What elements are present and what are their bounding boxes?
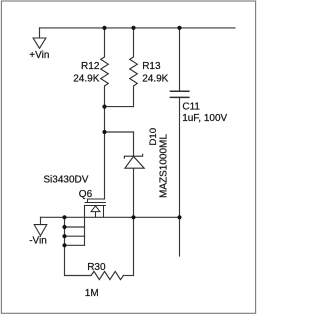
- node rail-C11: [177, 26, 181, 30]
- wire +Vin stub: [39, 28, 41, 38]
- wire C11 top lead: [179, 28, 181, 91]
- channel bar: [85, 202, 106, 204]
- svg-text:1M: 1M: [85, 288, 99, 299]
- wire R30 left lead: [65, 275, 92, 277]
- wire D10 top link: [105, 131, 134, 133]
- node R12-R13 junction: [102, 105, 106, 109]
- svg-text:R30: R30: [87, 262, 106, 273]
- svg-text:1uF, 100V: 1uF, 100V: [182, 113, 227, 124]
- wire Q6 gate vertical: [84, 206, 86, 246]
- resistor R12: [101, 57, 109, 86]
- wire Q6 pin rung 2: [65, 235, 85, 237]
- body arrow: [91, 206, 100, 212]
- resistor R30: [91, 271, 124, 279]
- body arrow stem: [95, 212, 97, 218]
- gate bar: [85, 205, 106, 207]
- node rail-R13: [131, 26, 135, 30]
- wire R30 right link: [124, 275, 134, 277]
- terminal +Vin: [33, 38, 46, 48]
- wire R13 top lead: [133, 28, 135, 57]
- wire D10 cathode lead: [133, 132, 135, 156]
- wire R13 bottom lead: [133, 86, 135, 107]
- wire R12 top lead: [104, 28, 106, 57]
- source stub: [103, 206, 105, 218]
- wire R12 bottom lead / Q6 drain line: [104, 86, 106, 199]
- node -Vin rail source pins: [62, 215, 66, 219]
- node rail-R12: [102, 26, 106, 30]
- wire R13 to R12 link: [105, 106, 134, 108]
- wire source pins left vertical: [64, 217, 66, 275]
- node pin rung 2: [62, 234, 66, 238]
- drain jog: [88, 199, 105, 203]
- svg-text:Q6: Q6: [79, 189, 93, 200]
- node -Vin rail C11: [177, 215, 181, 219]
- svg-text:Si3430DV: Si3430DV: [43, 174, 88, 185]
- wire Q6 pin rung 1: [65, 226, 85, 228]
- wire top +Vin rail: [40, 27, 236, 29]
- svg-text:24.9K: 24.9K: [142, 73, 168, 84]
- diode D10 (zener): [124, 154, 144, 168]
- node R12-D10 junction: [102, 130, 106, 134]
- resistor R13: [130, 57, 138, 86]
- transistor Q6 (p-MOSFET Si3430DV): [85, 199, 106, 217]
- node pin rung 3: [62, 243, 66, 247]
- wire D10 anode lead down to R30: [133, 168, 135, 275]
- svg-text:MAZS1000ML: MAZS1000ML: [159, 134, 170, 198]
- svg-text:24.9K: 24.9K: [73, 74, 99, 85]
- wire C11 bottom lead: [179, 97, 181, 256]
- capacitor C11: [170, 91, 190, 97]
- wire -Vin rail: [41, 216, 180, 218]
- svg-text:+Vin: +Vin: [29, 50, 49, 61]
- wire Q6 pin rung 3: [65, 244, 85, 246]
- svg-text:C11: C11: [182, 102, 200, 113]
- svg-text:R13: R13: [142, 61, 161, 72]
- svg-text:R12: R12: [81, 61, 100, 72]
- terminal -Vin: [34, 225, 47, 236]
- svg-text:-Vin: -Vin: [29, 236, 47, 247]
- node -Vin rail D10: [131, 215, 135, 219]
- node pin rung 1: [62, 225, 66, 229]
- wire -Vin stub: [40, 217, 42, 224]
- border frame: [1, 1, 255, 313]
- svg-text:D10: D10: [148, 128, 159, 146]
